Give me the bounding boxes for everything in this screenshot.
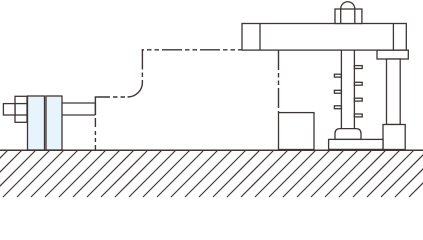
push rod [62,103,95,115]
thread tick right 3 [354,98,362,101]
wire workpiece top face [142,49,243,51]
lower flange nut [335,129,361,140]
wire workpiece left face [94,97,96,150]
support column [387,59,401,125]
thread tick right 4 [354,114,362,117]
screw shank through nut [15,103,27,105]
phantom workpiece outline [95,50,279,150]
support column foot [383,125,405,150]
side clamp body block 2 [46,96,62,150]
wire workpiece lower ledge [95,96,128,98]
wire workpiece step face [141,50,143,83]
side clamp adjusting nut [15,96,27,122]
wire workpiece right face [278,50,280,113]
strap slot end left [259,24,261,51]
thread tick left 3 [334,106,341,109]
hatched ground section [0,151,423,198]
top clamping nut [335,9,362,24]
side clamp body block 1 [28,96,45,150]
threaded stud [341,50,354,129]
thread tick left 2 [334,90,341,93]
wire workpiece fillet radius [128,83,143,98]
screw head [3,104,15,115]
clamp strap bar [242,24,406,51]
stud dome end [341,2,355,24]
locating stop block [279,113,315,150]
thread tick left 1 [334,74,341,77]
heel rest block [377,50,408,59]
thread tick right 1 [354,66,362,69]
stud base plate [329,139,383,149]
ground line [0,149,423,151]
thread tick right 2 [354,82,362,85]
strap slot end right [392,24,394,51]
